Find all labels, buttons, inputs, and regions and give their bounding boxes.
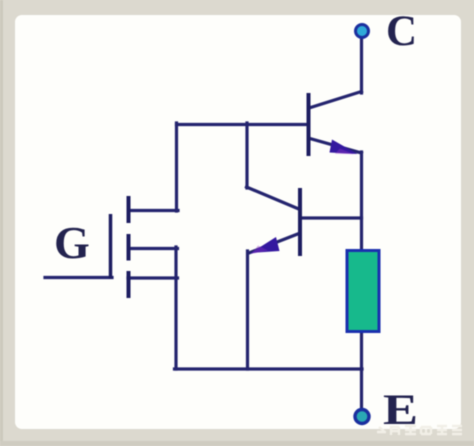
wire Q2 emitter diagonal xyxy=(250,234,299,253)
terminal C circle xyxy=(356,25,369,38)
wire Q2 base lead xyxy=(300,216,362,219)
wire MOSFET body lead xyxy=(129,247,178,250)
label C xyxy=(386,8,417,55)
wire MOSFET source/body vertical xyxy=(174,247,177,369)
wire MOSFET gate lead xyxy=(45,276,112,279)
label E xyxy=(383,386,418,434)
MOSFET channel dash source xyxy=(127,271,131,298)
terminal E circle xyxy=(355,410,369,424)
wire C terminal vertical xyxy=(360,37,363,93)
wire right vertical upper xyxy=(360,152,363,251)
label G xyxy=(54,217,90,268)
wire MOSFET drain lead xyxy=(129,209,178,212)
transistor Q1 base bar xyxy=(307,93,311,156)
transistor Q2 emitter arrow xyxy=(250,237,280,254)
MOSFET channel dash body xyxy=(127,234,131,261)
wire MOSFET source lead xyxy=(128,276,178,279)
wire Q2 collector diagonal xyxy=(247,187,301,210)
wire MOSFET drain vertical xyxy=(175,123,178,211)
wire Q2 emitter vertical xyxy=(246,251,249,369)
resistor R1 xyxy=(347,251,379,332)
watermark xyxy=(377,425,462,435)
wire top rail (gate node to Q1 base) xyxy=(177,123,309,126)
transistor Q1 emitter arrow xyxy=(330,140,358,155)
wire Q2 collector riser xyxy=(245,123,248,188)
MOSFET channel dash drain xyxy=(127,196,131,223)
transistor Q2 base bar xyxy=(298,188,302,256)
wire bottom rail xyxy=(175,367,363,370)
MOSFET gate bar xyxy=(109,214,113,279)
svg-text:C: C xyxy=(386,8,417,55)
svg-text:G: G xyxy=(54,217,90,268)
wire Q1 collector diagonal xyxy=(309,92,362,109)
wire Q1 emitter diagonal xyxy=(310,139,362,154)
wire right vertical lower xyxy=(360,332,363,410)
